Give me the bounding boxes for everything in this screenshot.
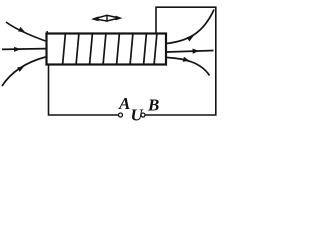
svg-text:U: U — [131, 106, 144, 125]
svg-text:B: B — [147, 96, 159, 115]
svg-text:A: A — [118, 94, 130, 113]
